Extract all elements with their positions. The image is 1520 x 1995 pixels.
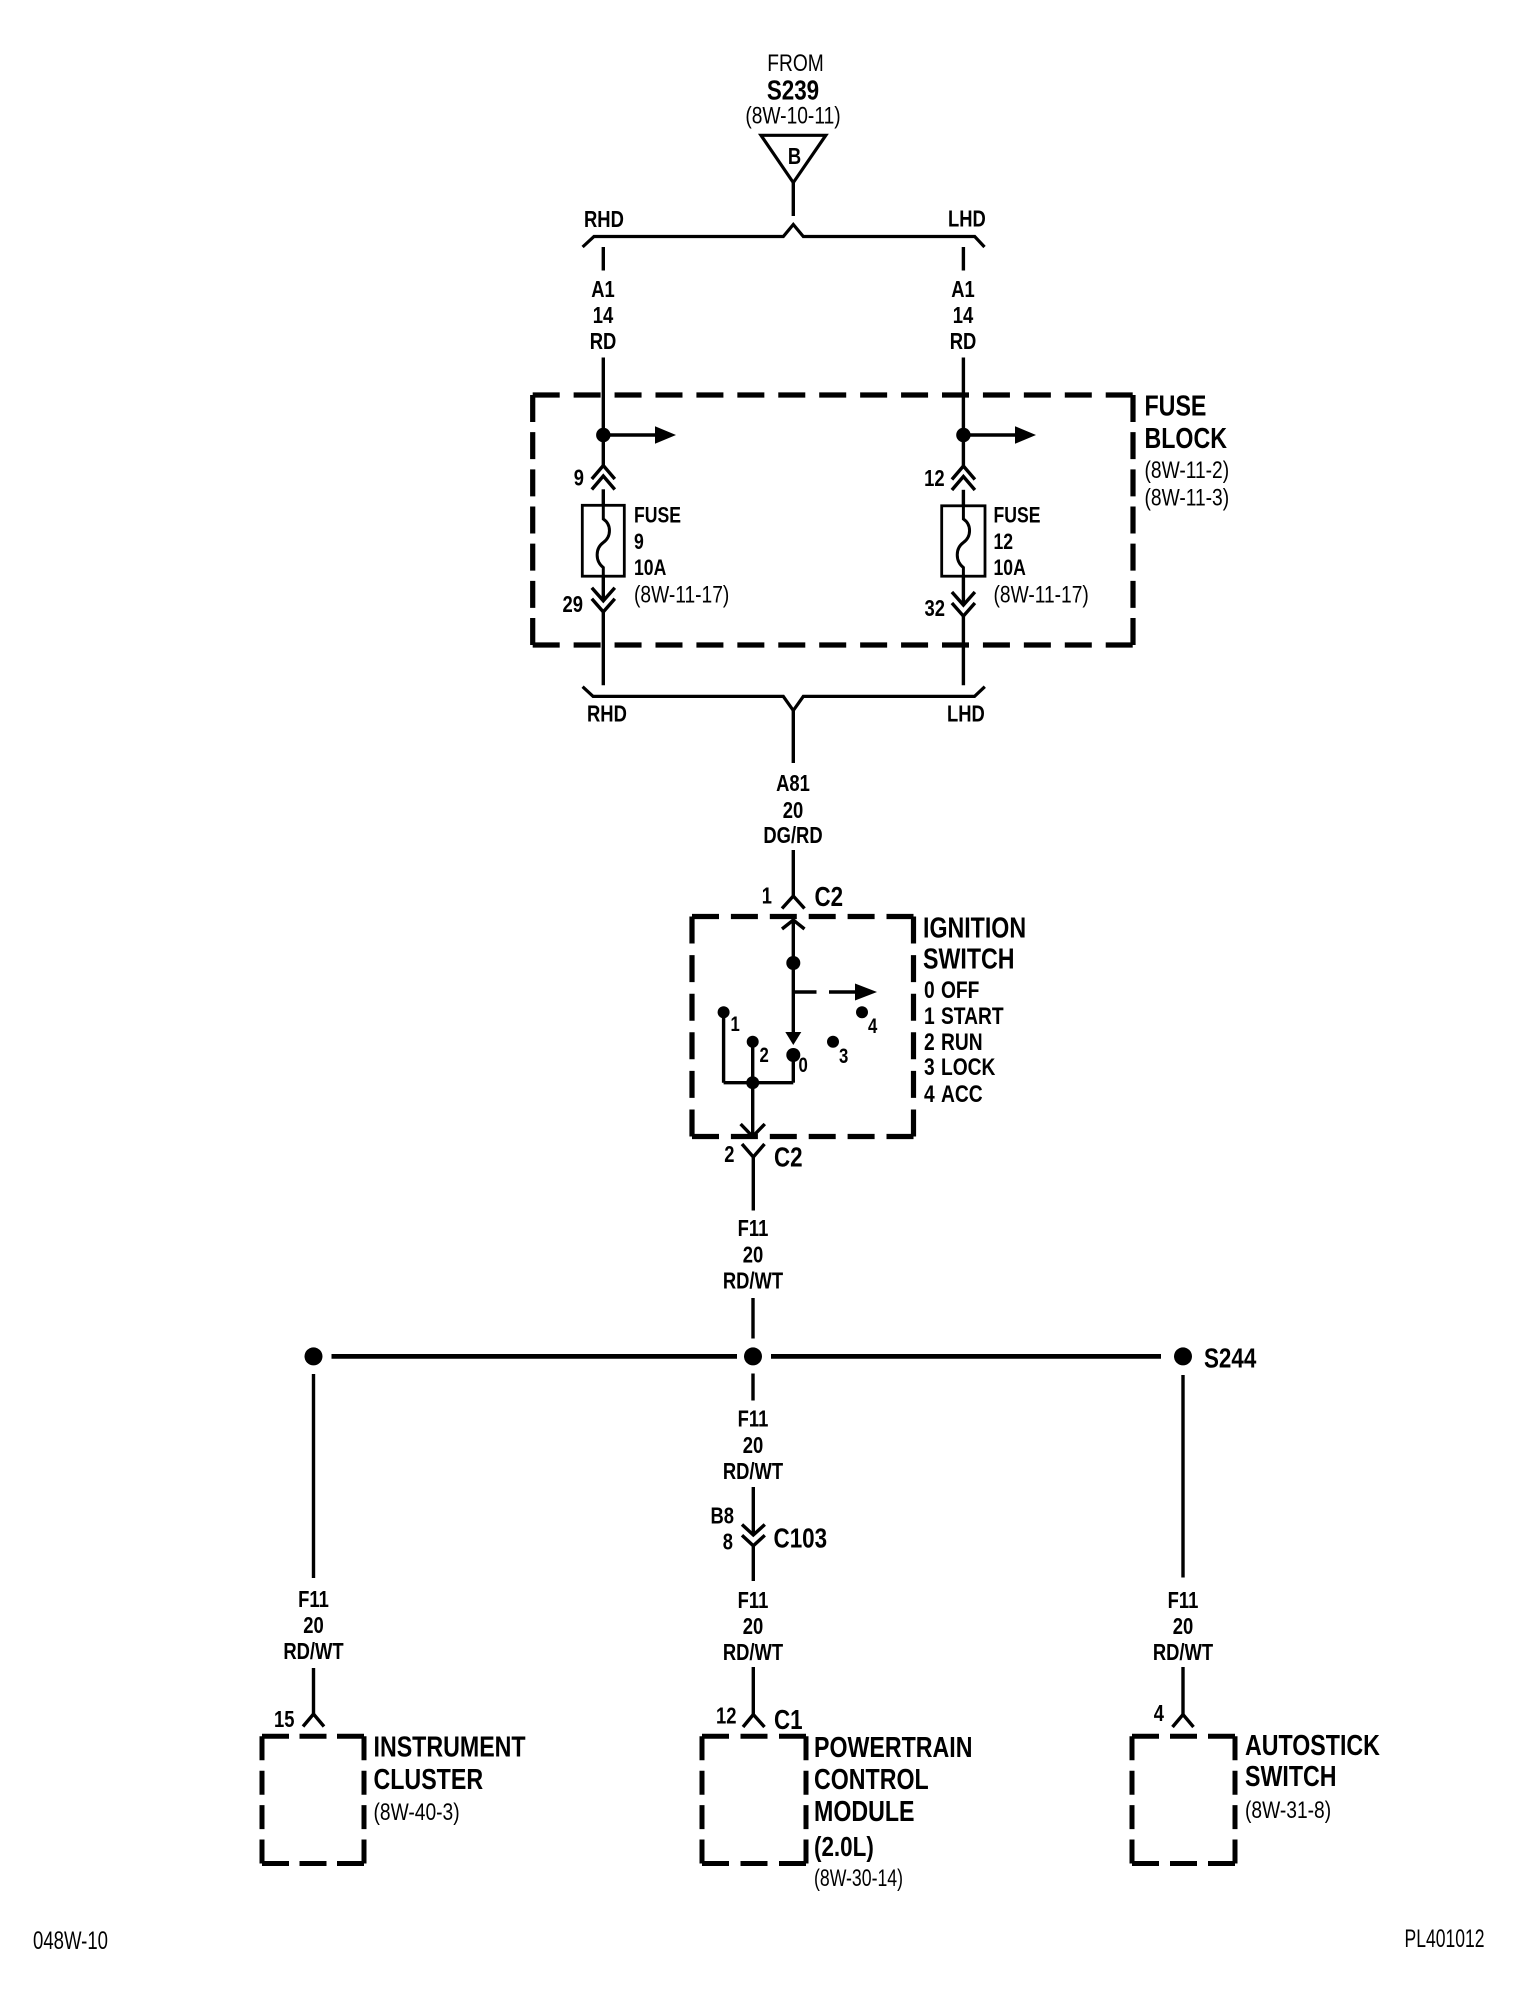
svg-text:4: 4 — [1154, 1700, 1164, 1726]
wire chevrons to fuse 9 — [602, 489, 605, 506]
svg-text:INSTRUMENT: INSTRUMENT — [374, 1732, 526, 1764]
svg-text:LHD: LHD — [948, 206, 986, 232]
male connector arrow into switch — [782, 920, 805, 929]
output chevron (down) — [741, 1124, 765, 1137]
connector chevrons pin 29 (down) — [592, 588, 615, 612]
connector chevrons pin 9 (up) — [592, 466, 615, 490]
svg-text:A81: A81 — [776, 770, 810, 796]
svg-text:20: 20 — [743, 1242, 764, 1268]
svg-text:LOCK: LOCK — [941, 1054, 996, 1081]
junction dot on bar — [746, 1076, 759, 1089]
svg-text:2: 2 — [760, 1044, 769, 1067]
connector chevrons pin 32 (down) — [952, 592, 975, 616]
contact 4 dot — [856, 1006, 868, 1018]
connector C1 female — [743, 1715, 765, 1728]
svg-text:B8: B8 — [711, 1503, 735, 1529]
wire contact 0 to bar — [792, 1055, 795, 1083]
off-page connector B (triangle) — [761, 135, 826, 182]
pivot junction dot — [786, 956, 800, 970]
svg-text:1: 1 — [731, 1013, 741, 1036]
svg-text:FUSE: FUSE — [1145, 391, 1207, 423]
svg-text:(8W-11-2): (8W-11-2) — [1145, 457, 1230, 484]
svg-text:(8W-31-8): (8W-31-8) — [1245, 1797, 1331, 1824]
contact 3 dot — [827, 1036, 839, 1048]
svg-text:9: 9 — [574, 465, 584, 491]
feed arrow right — [963, 433, 1016, 436]
top brace (RHD/LHD bus) — [583, 225, 985, 248]
svg-text:(8W-11-3): (8W-11-3) — [1145, 485, 1230, 512]
svg-text:12: 12 — [994, 529, 1014, 554]
wire A1 into fuse block (right) — [962, 358, 965, 467]
connector C2 female (bottom) — [742, 1144, 765, 1211]
wire to instrument cluster — [312, 1668, 315, 1714]
stub wire LHD — [962, 247, 965, 271]
wire S244 to F11 (middle) — [751, 1374, 754, 1401]
svg-text:CLUSTER: CLUSTER — [374, 1764, 484, 1796]
contact 1 dot — [718, 1006, 730, 1018]
wire to S244 — [751, 1298, 754, 1339]
svg-text:F11: F11 — [738, 1406, 769, 1432]
svg-text:IGNITION: IGNITION — [923, 913, 1026, 945]
svg-text:LHD: LHD — [947, 701, 985, 727]
svg-text:2: 2 — [924, 1029, 935, 1056]
svg-text:0: 0 — [924, 977, 935, 1004]
svg-text:FUSE: FUSE — [994, 502, 1041, 527]
autostick dashed box right — [1233, 1736, 1238, 1863]
svg-text:START: START — [941, 1003, 1004, 1030]
connector pin 4 female — [1173, 1715, 1194, 1728]
fuse block dashed border right — [1130, 395, 1135, 645]
svg-text:S239: S239 — [767, 75, 819, 106]
wire C103 to F11 — [752, 1546, 755, 1581]
wire output pin 2 — [751, 1083, 754, 1135]
svg-text:(8W-10-11): (8W-10-11) — [745, 103, 840, 130]
fuse F12 element (S-curve) — [957, 506, 969, 576]
svg-text:C2: C2 — [815, 881, 844, 912]
bottom brace (RHD/LHD merge) — [583, 687, 985, 711]
svg-text:1: 1 — [762, 883, 772, 909]
svg-text:10A: 10A — [634, 555, 666, 580]
PCM dashed box top — [702, 1734, 806, 1739]
svg-text:S244: S244 — [1204, 1343, 1257, 1374]
svg-text:0: 0 — [799, 1054, 808, 1077]
junction dot S244 middle — [744, 1347, 762, 1365]
instrument cluster dashed box top — [262, 1734, 364, 1739]
svg-text:DG/RD: DG/RD — [763, 822, 822, 848]
ignition switch dashed border top — [692, 914, 914, 919]
feed arrow left — [603, 433, 656, 436]
svg-text:20: 20 — [1173, 1613, 1194, 1639]
svg-text:14: 14 — [953, 302, 974, 328]
fuse F12 body — [942, 506, 985, 576]
wire fuse block to lower brace (left) — [602, 612, 605, 685]
svg-text:ACC: ACC — [941, 1081, 983, 1108]
contact 2 dot — [747, 1036, 759, 1048]
svg-text:F11: F11 — [1168, 1587, 1199, 1613]
ignition switch dashed border right — [911, 917, 916, 1137]
svg-text:C103: C103 — [774, 1523, 828, 1554]
svg-text:OFF: OFF — [941, 977, 979, 1004]
svg-text:POWERTRAIN: POWERTRAIN — [814, 1732, 973, 1764]
wire S244 to F11 (right) — [1181, 1375, 1184, 1578]
svg-text:20: 20 — [303, 1612, 324, 1638]
svg-text:RD/WT: RD/WT — [723, 1458, 783, 1484]
svg-text:A1: A1 — [591, 276, 615, 302]
svg-text:F11: F11 — [738, 1215, 769, 1241]
svg-text:8: 8 — [723, 1529, 733, 1555]
stub wire RHD — [602, 247, 605, 271]
fuse block dashed border left — [530, 395, 535, 645]
instrument cluster dashed box right — [362, 1736, 367, 1863]
svg-text:RD/WT: RD/WT — [1153, 1639, 1213, 1665]
svg-text:3: 3 — [839, 1045, 848, 1068]
instrument cluster dashed box left — [260, 1736, 265, 1863]
svg-text:9: 9 — [634, 529, 644, 554]
svg-text:A1: A1 — [951, 276, 975, 302]
connector C103 chevrons (down) — [742, 1525, 765, 1546]
fuse block dashed border top — [533, 392, 1133, 397]
svg-text:BLOCK: BLOCK — [1145, 423, 1228, 455]
svg-text:C2: C2 — [774, 1142, 803, 1173]
wire contact 1 to bar — [722, 1012, 725, 1082]
svg-text:FROM: FROM — [767, 50, 824, 77]
svg-text:048W-10: 048W-10 — [33, 1927, 108, 1955]
wire fuse block to lower brace (right) — [962, 616, 965, 685]
wire fuse 12 to chevrons — [962, 576, 965, 605]
wire brace to A81 — [792, 711, 795, 764]
svg-text:PL401012: PL401012 — [1405, 1925, 1485, 1953]
connector pin 15 (instrument cluster) — [303, 1714, 324, 1727]
svg-text:12: 12 — [716, 1703, 737, 1729]
svg-text:20: 20 — [783, 797, 804, 823]
svg-text:RD/WT: RD/WT — [283, 1638, 343, 1664]
svg-text:(8W-30-14): (8W-30-14) — [814, 1865, 903, 1892]
contact 0 dot — [786, 1048, 800, 1062]
svg-text:(8W-40-3): (8W-40-3) — [374, 1799, 460, 1826]
S244 bus wire right segment — [771, 1354, 1161, 1359]
svg-text:F11: F11 — [738, 1587, 769, 1613]
wire A81 to C2 — [792, 850, 795, 896]
PCM dashed box bottom — [702, 1861, 806, 1866]
svg-text:RD: RD — [950, 328, 977, 354]
instrument cluster dashed box bottom — [262, 1861, 364, 1866]
svg-text:F11: F11 — [298, 1586, 329, 1612]
svg-text:RD/WT: RD/WT — [723, 1639, 783, 1665]
svg-text:SWITCH: SWITCH — [1245, 1761, 1337, 1793]
wire fuse 9 to chevrons — [602, 576, 605, 601]
svg-text:12: 12 — [924, 465, 945, 491]
junction dot left — [596, 428, 610, 442]
fuse F9 body — [582, 505, 624, 576]
ignition switch dashed border left — [689, 917, 694, 1137]
PCM dashed box left — [700, 1736, 705, 1863]
wire to autostick switch — [1181, 1667, 1184, 1715]
svg-text:FUSE: FUSE — [634, 502, 681, 527]
svg-text:RD/WT: RD/WT — [723, 1268, 783, 1294]
svg-text:SWITCH: SWITCH — [923, 944, 1015, 976]
ignition switch dashed border bottom — [692, 1134, 914, 1139]
wire S244 to F11 (left) — [312, 1374, 315, 1578]
svg-text:B: B — [788, 143, 801, 169]
svg-text:RHD: RHD — [587, 701, 627, 727]
wire chevrons to fuse 12 — [962, 490, 965, 506]
svg-text:(8W-11-17): (8W-11-17) — [994, 582, 1089, 609]
fuse block dashed border bottom — [533, 642, 1133, 647]
junction dot right — [956, 428, 970, 442]
connector C2 female (top) — [782, 896, 805, 909]
svg-text:15: 15 — [274, 1706, 295, 1732]
connector chevrons pin 12 (up) — [952, 466, 975, 490]
svg-text:14: 14 — [593, 302, 614, 328]
rotation arrow (wiper direction) — [793, 990, 816, 993]
svg-text:(2.0L): (2.0L) — [814, 1831, 874, 1862]
wire pin1 to wiper — [792, 920, 795, 1033]
autostick dashed box bottom — [1132, 1861, 1235, 1866]
svg-text:RHD: RHD — [584, 206, 624, 232]
svg-text:4: 4 — [924, 1081, 935, 1108]
fuse F9 element (S-curve) — [597, 505, 609, 576]
svg-text:4: 4 — [868, 1015, 878, 1038]
wire contact 2 to bar — [751, 1042, 754, 1083]
wiper arrowhead (down) — [785, 1032, 801, 1045]
svg-text:32: 32 — [925, 595, 946, 621]
svg-text:AUTOSTICK: AUTOSTICK — [1245, 1730, 1380, 1762]
svg-text:RD: RD — [590, 328, 617, 354]
contact bar wire — [724, 1081, 794, 1084]
svg-text:2: 2 — [724, 1141, 734, 1167]
wire B to top brace — [792, 183, 795, 216]
junction dot S244 right — [1174, 1347, 1192, 1365]
svg-text:C1: C1 — [774, 1704, 803, 1735]
wire to C103 — [752, 1487, 755, 1535]
autostick dashed box left — [1130, 1736, 1135, 1863]
svg-text:1: 1 — [924, 1003, 935, 1030]
autostick dashed box top — [1132, 1734, 1235, 1739]
PCM dashed box right — [804, 1736, 809, 1863]
S244 bus wire left segment — [332, 1354, 738, 1359]
svg-text:(8W-11-17): (8W-11-17) — [634, 582, 729, 609]
svg-text:MODULE: MODULE — [814, 1796, 915, 1828]
svg-text:3: 3 — [924, 1054, 935, 1081]
junction dot S244 left — [305, 1347, 323, 1365]
svg-text:20: 20 — [743, 1613, 764, 1639]
svg-text:29: 29 — [563, 591, 584, 617]
svg-text:20: 20 — [743, 1432, 764, 1458]
wire A1 into fuse block (left) — [602, 358, 605, 466]
wire to PCM — [752, 1667, 755, 1715]
svg-text:CONTROL: CONTROL — [814, 1764, 929, 1796]
svg-text:10A: 10A — [994, 555, 1026, 580]
svg-text:RUN: RUN — [941, 1029, 983, 1056]
